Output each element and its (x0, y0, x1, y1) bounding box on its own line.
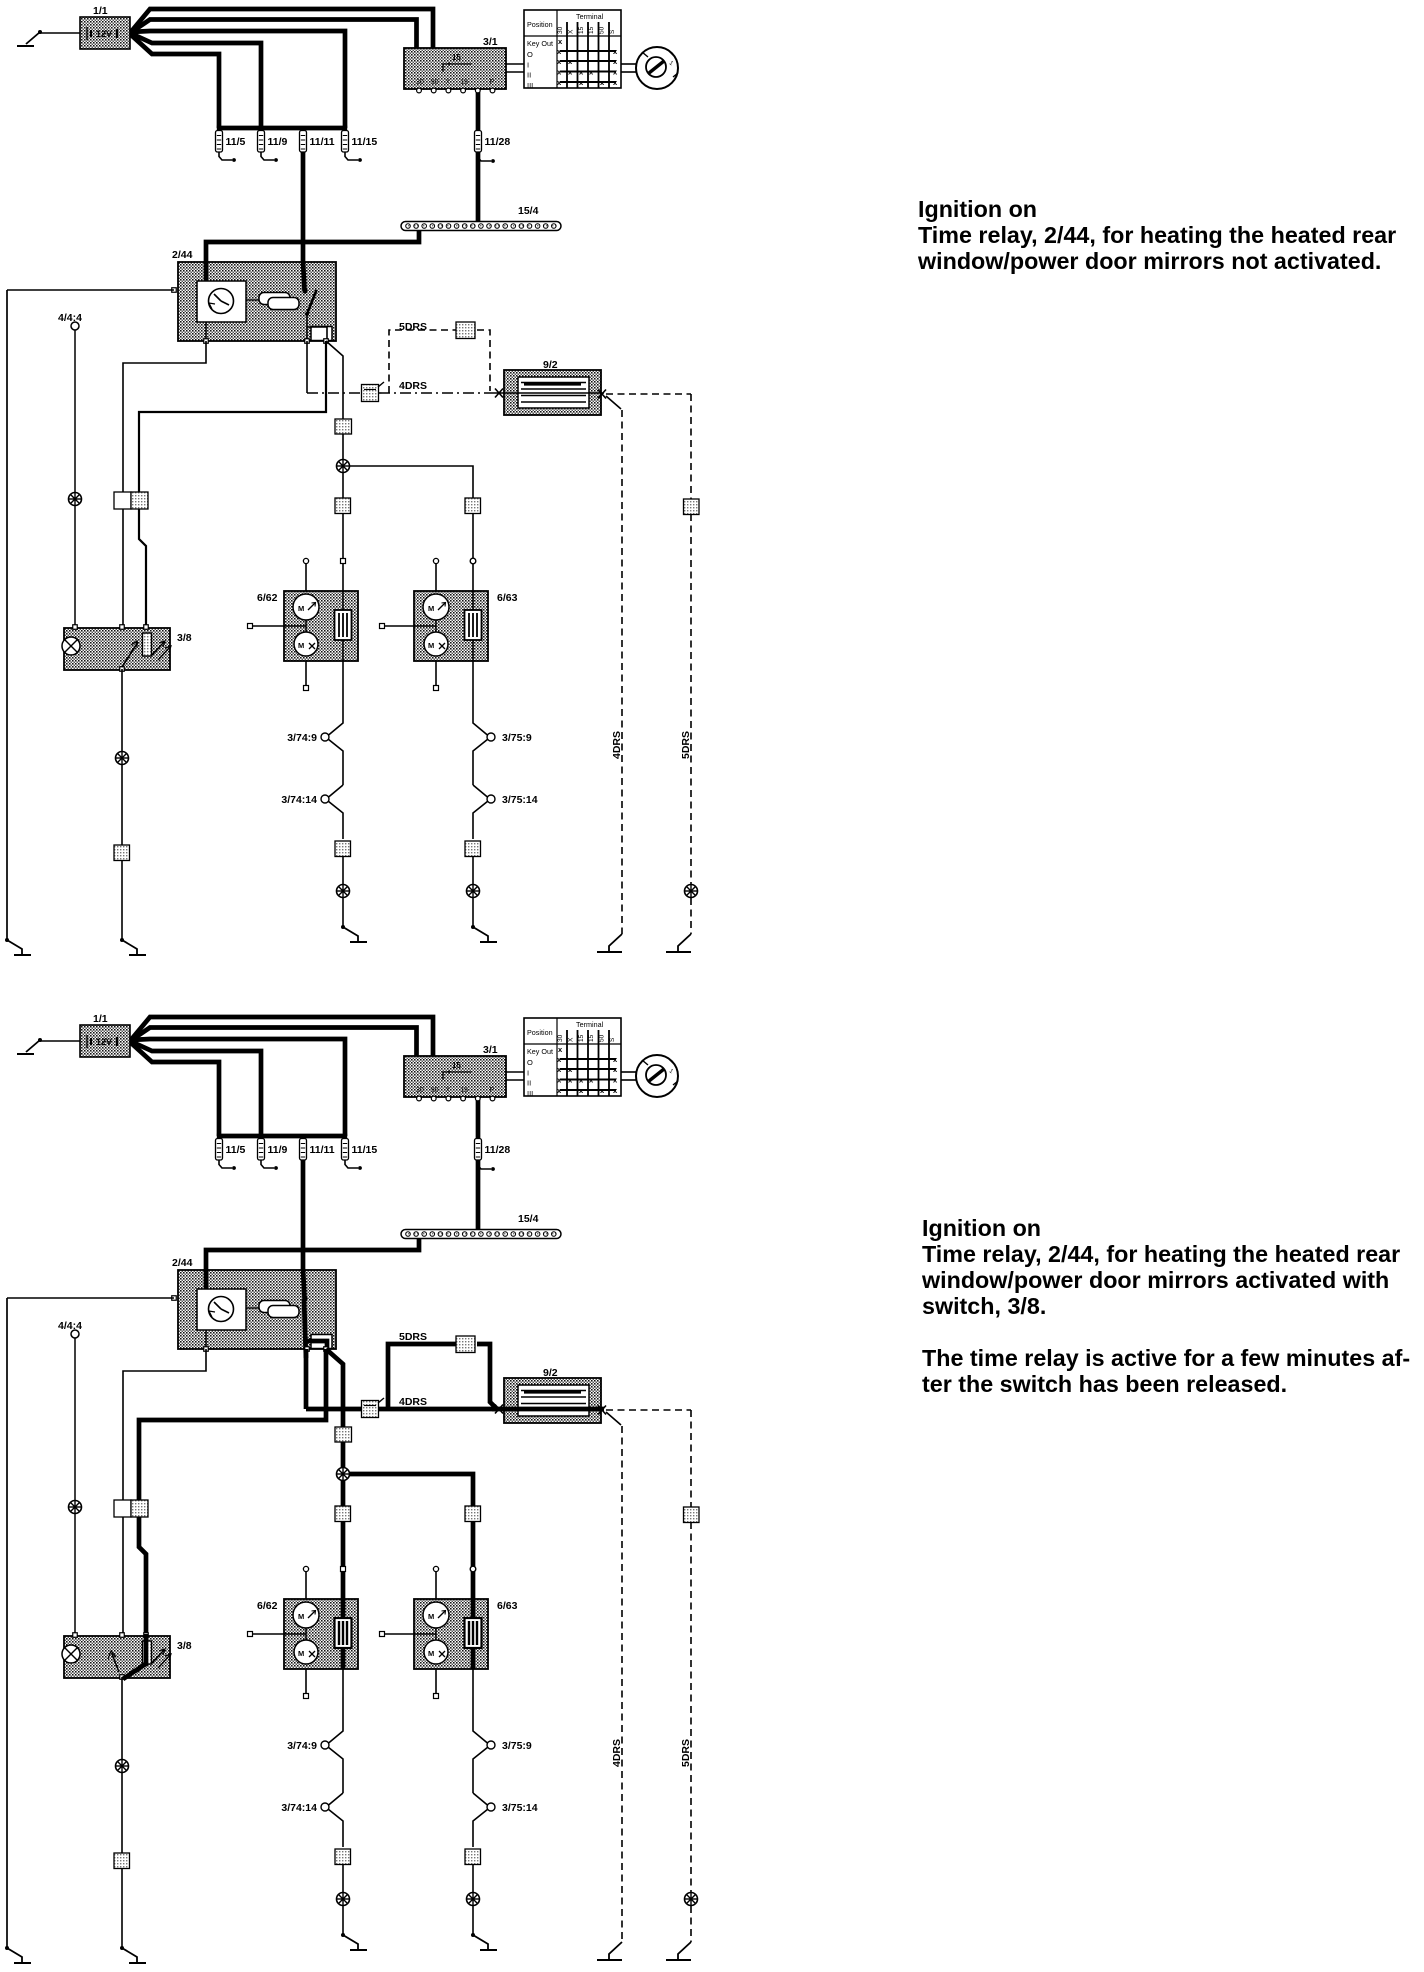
wire 2/44 to switch 3/8 feed (139, 341, 326, 627)
wire (121, 1868, 123, 1948)
2/44 pins (172, 1296, 177, 1301)
wire 2/44 pin to 4DRS (active) (304, 1349, 309, 1409)
wire battery to fuse 11/9 (130, 33, 261, 128)
wire 11/11 feed inside 2/44 (303, 261, 305, 290)
fuse 11/28 (475, 131, 511, 163)
wire junction to 6/62 (342, 473, 344, 647)
svg-text:15: 15 (578, 26, 585, 34)
svg-text:15: 15 (588, 26, 595, 34)
splice 3/75:9 (473, 1697, 495, 1793)
heated rear window 9/2 (504, 370, 601, 415)
fuse 11/15 (342, 131, 378, 162)
ground junction (337, 1893, 350, 1906)
wire fuse 11/11 to relay 2/44 (301, 128, 306, 291)
svg-text:3/74:9: 3/74:9 (287, 1740, 317, 1752)
battery 1/1 (80, 1025, 130, 1057)
svg-text:II: II (527, 71, 531, 80)
svg-text:3/8: 3/8 (177, 632, 192, 644)
5DRS loop (active) (388, 1344, 456, 1409)
connector (465, 1849, 481, 1865)
mirror feed junction (337, 460, 350, 473)
svg-text:3/75:14: 3/75:14 (502, 1802, 538, 1814)
door mirror 6/62 (284, 1599, 358, 1669)
svg-text:50: 50 (431, 1087, 439, 1094)
2/44 clock symbol (197, 1289, 246, 1330)
svg-text:30: 30 (557, 26, 564, 34)
wire 11/11 feed inside 2/44 (303, 1269, 305, 1298)
arrow out of 9/2 (598, 1406, 606, 1415)
svg-text:30: 30 (416, 1087, 424, 1094)
6/62 stubs and pins (248, 558, 309, 690)
arrow into 9/2 (495, 389, 503, 398)
svg-text:Time relay, 2/44, for heating: Time relay, 2/44, for heating the heated… (918, 222, 1396, 248)
svg-text:11/5: 11/5 (226, 136, 246, 148)
terminal on 6/63 feed (470, 1566, 476, 1572)
pigtail connector on 4DRS (362, 1401, 379, 1418)
wire 2/44 pin to 4DRS (306, 341, 308, 393)
wire 2/44 to mirror junction (326, 341, 343, 465)
switch 3/8 (64, 1636, 170, 1678)
fuse 11/11 (300, 131, 335, 153)
svg-text:2/44: 2/44 (172, 249, 193, 261)
splice 3/74:9 (321, 1697, 343, 1793)
wire 15/4 feed inside 2/44 (204, 1269, 209, 1291)
svg-text:3/8: 3/8 (177, 1640, 192, 1652)
6/63 stubs and pins (380, 1566, 439, 1698)
6/62 main wire inside box (342, 591, 344, 614)
3/8 arrows (152, 1649, 171, 1668)
svg-text:5DRS: 5DRS (680, 731, 692, 759)
3/8 resistor (143, 1641, 152, 1664)
wire (342, 898, 344, 927)
svg-text:50: 50 (431, 79, 439, 86)
ground (5DRS) (666, 1942, 691, 1960)
svg-text:Position: Position (527, 20, 553, 29)
svg-text:O: O (527, 1058, 533, 1067)
3/8 lamp (62, 637, 80, 655)
3/8 contact (144, 1634, 149, 1665)
wire ignition switch to 15/4 (476, 1097, 481, 1229)
splice 3/74:14 (321, 1793, 343, 1847)
wire 15/4 to relay 2/44 (206, 229, 419, 283)
3/8 arrows (152, 641, 171, 660)
connector on 5DRS run (684, 1507, 700, 1523)
wire (342, 1906, 344, 1935)
time relay 2/44 (178, 262, 336, 341)
svg-text:ter the switch has been releas: ter the switch has been released. (922, 1371, 1287, 1397)
splice 3/74:9 (321, 689, 343, 785)
wire 3/8 to ground (121, 1677, 123, 1759)
svg-text:X: X (567, 1037, 574, 1042)
fuse 11/15 (342, 1139, 378, 1170)
terminal on 6/63 feed (470, 558, 476, 564)
svg-text:9/2: 9/2 (543, 359, 558, 371)
ignition switch 3/1 (404, 48, 506, 93)
wire 4/4:4 to 3/8 (74, 1338, 76, 1500)
wire (472, 898, 474, 927)
fuse 11/28 (475, 1139, 511, 1171)
svg-text:15: 15 (578, 1034, 585, 1042)
dashed 5DRS run to right (606, 393, 691, 395)
wire 2/44 to mirror junction (326, 1349, 343, 1473)
svg-text:15: 15 (460, 1087, 468, 1094)
6/63 heater element (465, 1618, 482, 1648)
svg-text:4/4:4: 4/4:4 (58, 1320, 82, 1332)
2/44 contact (302, 288, 332, 341)
svg-text:X: X (445, 1087, 450, 1094)
time relay 2/44 (178, 1270, 336, 1349)
junction on 4/4:4 wire (69, 1501, 82, 1514)
wire battery to ignition switch (2nd) (130, 1028, 417, 1059)
wire (472, 1865, 474, 1892)
connector (twin) on switch wires (114, 1500, 131, 1517)
ground (left rail) (5, 938, 31, 955)
svg-text:window/power door mirrors acti: window/power door mirrors activated with (921, 1267, 1389, 1293)
svg-text:50: 50 (599, 1034, 606, 1042)
dashed 5DRS run to right (606, 1409, 691, 1411)
svg-text:switch, 3/8.: switch, 3/8. (922, 1293, 1046, 1319)
svg-text:1/1: 1/1 (93, 5, 108, 17)
4DRS wire to 9/2 (dash-dot) (307, 392, 361, 394)
fuse 11/9 (258, 131, 288, 162)
text block 1 (917, 196, 1396, 274)
svg-text:II: II (527, 1079, 531, 1088)
connector below 3/8 (114, 1853, 130, 1869)
wire left ground rail to 2/44 (7, 1297, 174, 1299)
svg-text:5DRS: 5DRS (399, 1331, 427, 1343)
splice 3/75:9 (473, 689, 495, 785)
svg-text:P: P (490, 79, 495, 86)
arrow into 9/2 (495, 1405, 503, 1414)
wire ignition switch to 15/4 (476, 89, 481, 221)
ground junction (467, 1893, 480, 1906)
3/8 lamp (62, 1645, 80, 1663)
wire junction to 6/63 (350, 466, 474, 646)
wire left ground rail to 2/44 (7, 289, 174, 291)
fuse 11/9 (258, 1139, 288, 1170)
6/63 stubs and pins (380, 558, 439, 690)
svg-text:11/11: 11/11 (310, 136, 335, 148)
svg-text:6/62: 6/62 (257, 1600, 278, 1612)
connector (335, 841, 351, 857)
wire junction to 6/63 (350, 1474, 474, 1654)
svg-text:Ignition on: Ignition on (922, 1215, 1041, 1241)
svg-text:11/9: 11/9 (268, 136, 288, 148)
heated rear window 9/2 (504, 1378, 601, 1423)
wire (342, 1865, 344, 1892)
2/44 internal link (205, 1330, 207, 1349)
svg-text:15/4: 15/4 (518, 205, 539, 217)
6/62 main wire inside box (341, 1599, 346, 1622)
connector 6/62 feed (335, 498, 351, 514)
2/44 contact (302, 1296, 332, 1358)
svg-text:3/75:9: 3/75:9 (502, 732, 532, 744)
ignition position/terminal table (524, 10, 621, 90)
wire 3/8 to ground (121, 669, 123, 751)
svg-text:S: S (609, 1037, 616, 1042)
wire (472, 857, 474, 884)
ground (battery 1/1 negative) (17, 30, 80, 46)
wire battery to ignition switch (top) (130, 9, 433, 50)
terminal on 6/62 feed (341, 1567, 346, 1572)
svg-text:4DRS: 4DRS (399, 1396, 427, 1408)
svg-text:X: X (567, 29, 574, 34)
6/63 main wire inside box (471, 1599, 476, 1622)
2/44 pins (172, 288, 177, 293)
ground (3/8) (120, 1946, 146, 1963)
connector on 5DRS (456, 1336, 475, 1353)
connector on 5DRS run (684, 499, 700, 515)
wire through 9/2 (492, 1407, 604, 1412)
wire junction to 6/62 (341, 1481, 346, 1655)
svg-text:III: III (527, 81, 533, 90)
ground (471, 925, 497, 942)
dashed 4DRS run to right (606, 396, 621, 409)
wire 3/1 to table (506, 63, 524, 65)
6/62 heater element (335, 1618, 352, 1648)
terminal 4/4:4 (71, 1330, 79, 1338)
ground (471, 1933, 497, 1950)
left ground rail (6, 1298, 8, 1948)
wire 15/4 feed inside 2/44 (204, 261, 209, 283)
svg-text:12V: 12V (96, 1037, 112, 1047)
fuse feed bus (217, 126, 347, 131)
connector 6/63 feed (465, 498, 481, 514)
svg-text:M: M (298, 1649, 304, 1658)
junction strip 15/4 (401, 1230, 561, 1239)
ground (5DRS) (666, 934, 691, 952)
6/63 main wire inside box (472, 591, 474, 614)
wire battery to fuse 11/5 (130, 34, 219, 128)
pigtail connector on 4DRS (362, 385, 379, 402)
svg-text:3/74:9: 3/74:9 (287, 732, 317, 744)
wire battery to fuse 11/15 (130, 31, 345, 128)
wire battery to ignition switch (2nd) (130, 20, 417, 51)
wire (121, 860, 123, 940)
wire battery to fuse 11/15 (130, 1039, 345, 1136)
svg-text:M: M (428, 1612, 434, 1621)
5DRS loop (dashed) (389, 330, 456, 393)
svg-text:15: 15 (588, 1034, 595, 1042)
wire battery to fuse 11/9 (130, 1041, 261, 1136)
svg-text:3/74:14: 3/74:14 (281, 794, 317, 806)
left ground rail (6, 290, 8, 940)
ground (battery 1/1 negative) (17, 1038, 80, 1054)
2/44 relay coil (246, 1301, 299, 1318)
svg-text:30: 30 (557, 1034, 564, 1042)
ground junction (467, 885, 480, 898)
terminal 4/4:4 (71, 322, 79, 330)
svg-text:11/28: 11/28 (485, 136, 511, 148)
fuse 11/5 (216, 1139, 246, 1170)
svg-text:11/28: 11/28 (485, 1144, 511, 1156)
arrow out of 9/2 (598, 390, 606, 399)
svg-text:Key Out: Key Out (527, 39, 553, 48)
ignition switch 3/1 (404, 1056, 506, 1101)
door mirror 6/63 (414, 591, 488, 661)
svg-text:6/63: 6/63 (497, 1600, 518, 1612)
connector on mirror feed (335, 419, 352, 434)
svg-text:Time relay, 2/44, for heating: Time relay, 2/44, for heating the heated… (922, 1241, 1400, 1267)
svg-text:3/74:14: 3/74:14 (281, 1802, 317, 1814)
connector below 3/8 (114, 845, 130, 861)
svg-text:6/62: 6/62 (257, 592, 278, 604)
4DRS wire to 9/2 (active) (306, 1407, 497, 1412)
6/62 stubs and pins (248, 1566, 309, 1698)
connector 6/63 feed (465, 1506, 481, 1522)
svg-text:M: M (298, 641, 304, 650)
wire battery to fuse 11/5 (130, 1042, 219, 1136)
wire (472, 1906, 474, 1935)
junction on 4/4:4 wire (69, 493, 82, 506)
junction below 3/8 (116, 1760, 129, 1773)
3/8 pins (73, 1633, 78, 1638)
svg-text:5DRS: 5DRS (399, 321, 427, 333)
svg-text:Key Out: Key Out (527, 1047, 553, 1056)
wire 15/4 to relay 2/44 (206, 1237, 419, 1291)
dashed 4DRS run to right (606, 1412, 621, 1425)
wire 4/4:4 to 3/8 (74, 330, 76, 492)
6/63 motors (423, 1602, 449, 1664)
svg-text:9/2: 9/2 (543, 1367, 558, 1379)
splice 3/74:14 (321, 785, 343, 839)
6/62 motors (293, 1602, 319, 1664)
ground (3/8) (120, 938, 146, 955)
svg-text:2/44: 2/44 (172, 1257, 193, 1269)
3/8 pins (73, 625, 78, 630)
switch 3/8 (64, 628, 170, 670)
text block 2 (921, 1215, 1410, 1397)
junction on 5DRS run (685, 885, 698, 898)
fuse 11/11 (300, 1139, 335, 1161)
splice 3/75:14 (473, 785, 495, 839)
fuse 11/5 (216, 131, 246, 162)
svg-text:M: M (428, 604, 434, 613)
ground (341, 1933, 367, 1950)
fuse feed bus (217, 1134, 347, 1139)
svg-text:5DRS: 5DRS (680, 1739, 692, 1767)
svg-text:Terminal: Terminal (576, 12, 604, 21)
svg-text:Position: Position (527, 1028, 553, 1037)
connector 6/62 feed (335, 1506, 351, 1522)
svg-text:III: III (527, 1089, 533, 1098)
svg-text:11/9: 11/9 (268, 1144, 288, 1156)
2/44 clock symbol (197, 281, 246, 322)
svg-text:X: X (445, 79, 450, 86)
mirror feed junction (337, 1468, 350, 1481)
svg-text:3/75:14: 3/75:14 (502, 794, 538, 806)
ignition key symbol (621, 47, 678, 89)
wire (342, 857, 344, 884)
svg-text:15: 15 (452, 1061, 461, 1070)
svg-text:window/power door mirrors not: window/power door mirrors not activated. (917, 248, 1381, 274)
6/62 heater element (335, 610, 352, 640)
wire 2/44 to switch 3/8 feed (139, 1349, 326, 1635)
3/8 contact (122, 642, 138, 667)
door mirror 6/62 (284, 591, 358, 661)
svg-text:I: I (527, 60, 529, 69)
svg-text:I: I (527, 1068, 529, 1077)
junction strip 15/4 (401, 222, 561, 231)
wire battery to ignition switch (top) (130, 1017, 433, 1058)
2/44 relay coil (246, 293, 299, 310)
svg-text:50: 50 (599, 26, 606, 34)
svg-text:M: M (428, 641, 434, 650)
wire through 9/2 (492, 392, 604, 394)
svg-text:15/4: 15/4 (518, 1213, 539, 1225)
ground (341, 925, 367, 942)
battery 1/1 (80, 17, 130, 49)
svg-text:M: M (298, 1612, 304, 1621)
svg-text:M: M (428, 1649, 434, 1658)
3/8 resistor (143, 633, 152, 656)
svg-text:15: 15 (460, 79, 468, 86)
svg-text:M: M (298, 604, 304, 613)
ground junction (337, 885, 350, 898)
svg-text:11/15: 11/15 (352, 1144, 378, 1156)
splice 3/75:14 (473, 1793, 495, 1847)
wire 3/1 to table (506, 1071, 524, 1073)
svg-text:P: P (490, 1087, 495, 1094)
ignition key symbol (621, 1055, 678, 1097)
svg-text:4/4:4: 4/4:4 (58, 312, 82, 324)
connector on 5DRS (456, 322, 475, 339)
svg-text:6/63: 6/63 (497, 592, 518, 604)
svg-text:Ignition on: Ignition on (918, 196, 1037, 222)
wire 2/44 pin to 3/8 (left) (123, 341, 206, 627)
connector (335, 1849, 351, 1865)
svg-text:12V: 12V (96, 29, 112, 39)
connector on mirror feed (335, 1427, 352, 1442)
wire fuse 11/11 to relay 2/44 (301, 1136, 306, 1299)
svg-text:Terminal: Terminal (576, 1020, 604, 1029)
junction on 5DRS run (685, 1893, 698, 1906)
svg-text:30: 30 (416, 79, 424, 86)
6/62 motors (293, 594, 319, 656)
door mirror 6/63 (414, 1599, 488, 1669)
ground (4DRS) (597, 1942, 622, 1960)
svg-text:4DRS: 4DRS (611, 731, 623, 759)
svg-text:11/5: 11/5 (226, 1144, 246, 1156)
connector (465, 841, 481, 857)
svg-text:3/1: 3/1 (483, 36, 498, 48)
svg-text:3/75:9: 3/75:9 (502, 1740, 532, 1752)
junction below 3/8 (116, 752, 129, 765)
ground (4DRS) (597, 934, 622, 952)
2/44 internal link (205, 322, 207, 341)
svg-text:11/15: 11/15 (352, 136, 378, 148)
svg-text:1/1: 1/1 (93, 1013, 108, 1025)
ignition position/terminal table (524, 1018, 621, 1098)
svg-text:4DRS: 4DRS (611, 1739, 623, 1767)
svg-text:The time relay is active for a: The time relay is active for a few minut… (922, 1345, 1410, 1371)
svg-text:11/11: 11/11 (310, 1144, 335, 1156)
wire 2/44 pin to 3/8 (left) (123, 1349, 206, 1635)
svg-text:S: S (609, 29, 616, 34)
svg-text:4DRS: 4DRS (399, 380, 427, 392)
6/63 heater element (465, 610, 482, 640)
svg-text:15: 15 (452, 53, 461, 62)
svg-text:3/1: 3/1 (483, 1044, 498, 1056)
svg-text:O: O (527, 50, 533, 59)
connector (twin) on switch wires (114, 492, 131, 509)
terminal on 6/62 feed (341, 559, 346, 564)
ground (left rail) (5, 1946, 31, 1963)
6/63 motors (423, 594, 449, 656)
